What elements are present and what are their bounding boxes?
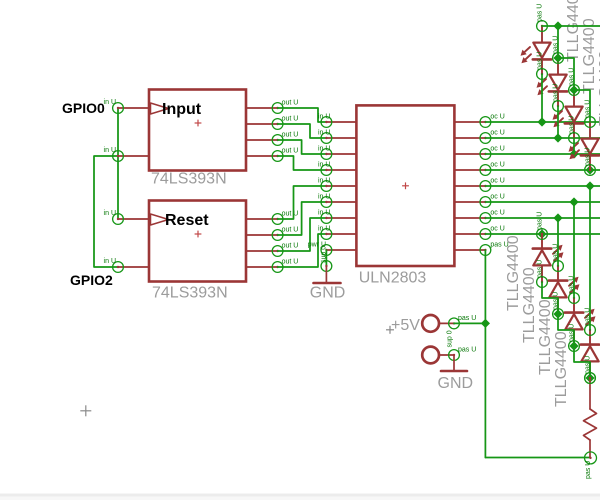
- wire +5V to COM rail: [454, 322, 485, 324]
- svg-text:out U: out U: [282, 226, 299, 233]
- label LED8 name TLLG4400: [553, 331, 570, 407]
- label LED5 name TLLG4400: [505, 235, 522, 311]
- svg-text:ULN2803: ULN2803: [359, 270, 427, 287]
- svg-text:TLLG4400: TLLG4400: [581, 18, 598, 94]
- wire U2 out4 to U3 in8: [278, 234, 327, 267]
- connector pin +5V: [422, 315, 476, 332]
- wire bottom +5V rail: [485, 457, 590, 459]
- svg-text:oc U: oc U: [490, 225, 504, 232]
- junction oc5 at x=590: [585, 181, 594, 190]
- svg-text:Input: Input: [162, 101, 202, 118]
- svg-text:in U: in U: [104, 210, 116, 217]
- wire U2 out2 to U3 in6: [278, 202, 327, 235]
- IC U3 ULN2803 darlington driver: [308, 105, 509, 266]
- LED5 TLLG4400: [533, 212, 564, 288]
- svg-text:oc U: oc U: [490, 113, 504, 120]
- ground GND1 under U3: [310, 261, 346, 302]
- wire U3 oc3 output row: [485, 153, 600, 155]
- svg-text:pas U: pas U: [537, 212, 544, 230]
- svg-text:oc U: oc U: [490, 129, 504, 136]
- svg-text:GND: GND: [310, 285, 346, 302]
- junction anode rail E: [569, 341, 578, 350]
- svg-text:GPIO2: GPIO2: [70, 272, 113, 288]
- wire LED6 cathode riser: [557, 218, 559, 266]
- wire net GPIO2: [94, 156, 118, 267]
- label net gnd rotated: [321, 246, 328, 263]
- wire U3 oc5 output row: [485, 185, 600, 187]
- wire LED8 cathode riser: [589, 186, 591, 330]
- junction oc4 at x=590: [585, 165, 594, 174]
- svg-text:pas U: pas U: [458, 346, 476, 353]
- net label GPIO0: [62, 100, 105, 116]
- label U3 value ULN2803: [359, 270, 427, 287]
- wire U3 oc8 output row: [485, 233, 600, 235]
- svg-text:out U: out U: [282, 115, 299, 122]
- wire LED1-LED4 anode rail: [542, 26, 590, 122]
- junction oc2 at x=558: [553, 133, 562, 142]
- LED4 TLLG4400: [569, 100, 600, 176]
- label LED1 name TLLG4400: [565, 0, 582, 62]
- junction +5V rail: [481, 319, 490, 328]
- wire U1 out1 to U3 in1: [278, 108, 327, 122]
- svg-text:oc U: oc U: [490, 145, 504, 152]
- svg-text:TLLG4400: TLLG4400: [521, 267, 538, 343]
- svg-text:out U: out U: [282, 258, 299, 265]
- label LED7 name TLLG4400: [537, 299, 554, 375]
- label LED6 name TLLG4400: [521, 267, 538, 343]
- svg-text:oc U: oc U: [490, 161, 504, 168]
- label net sup rotated: [447, 330, 454, 347]
- wire LED5-LED8 anode rail: [542, 282, 590, 378]
- svg-text:in U: in U: [104, 258, 116, 265]
- svg-text:sup 0: sup 0: [447, 330, 454, 347]
- svg-text:out U: out U: [282, 242, 299, 249]
- wire U2 out1 to U3 in5: [278, 186, 327, 219]
- junction oc1 at x=542: [537, 117, 546, 126]
- svg-text:pas U: pas U: [458, 315, 476, 322]
- wire LED2 cathode drop: [557, 106, 559, 138]
- svg-text:pas U: pas U: [569, 116, 576, 134]
- svg-text:TLLG4400: TLLG4400: [505, 235, 522, 311]
- svg-text:74LS393N: 74LS393N: [152, 285, 228, 302]
- wire U3 pas COM down to bottom rail: [484, 250, 486, 458]
- svg-text:out U: out U: [282, 131, 299, 138]
- svg-text:74LS393N: 74LS393N: [151, 170, 227, 187]
- IC U1 74LS393N counter Input: [104, 90, 299, 171]
- junction anode rail D: [553, 309, 562, 318]
- svg-text:pas U: pas U: [537, 4, 544, 22]
- wire U3 oc6 output row: [485, 201, 600, 203]
- bottom band: [0, 494, 600, 500]
- svg-text:TLLG4400: TLLG4400: [537, 299, 554, 375]
- ground GND2: [438, 355, 474, 392]
- wire U3 oc4 output row: [485, 169, 600, 171]
- LED6 TLLG4400: [549, 244, 580, 320]
- LED1 TLLG4400: [521, 4, 552, 80]
- wire U1 out2 to U3 in2: [278, 124, 327, 138]
- svg-text:in U: in U: [318, 161, 330, 168]
- label U2 value 74LS393N: [152, 285, 228, 302]
- svg-text:in U: in U: [318, 177, 330, 184]
- wire U3 pwr to GND: [325, 250, 327, 266]
- wire U3 oc7 output row: [485, 217, 600, 219]
- junction oc7 at x=558: [553, 213, 562, 222]
- junction anode rail B: [553, 53, 562, 62]
- svg-text:in U: in U: [318, 209, 330, 216]
- svg-text:pas U: pas U: [585, 461, 592, 479]
- junction anode rail A: [553, 21, 562, 30]
- svg-text:out U: out U: [282, 210, 299, 217]
- IC U2 74LS393N counter Reset: [104, 201, 299, 282]
- svg-text:oc U: oc U: [490, 209, 504, 216]
- svg-text:+5V: +5V: [391, 317, 420, 334]
- svg-text:oc U: oc U: [490, 193, 504, 200]
- LED7 TLLG4400: [565, 276, 596, 352]
- LED2 TLLG4400: [537, 36, 568, 112]
- wire U3 oc2 output row: [485, 137, 600, 139]
- svg-text:TLLG4400: TLLG4400: [565, 0, 582, 62]
- wire anode rail to right edge: [558, 25, 600, 27]
- wire U3 oc1 output row: [485, 121, 600, 123]
- wire U1 out3 to U3 in3: [278, 140, 327, 154]
- svg-text:GPIO0: GPIO0: [62, 100, 105, 116]
- svg-text:in U: in U: [318, 145, 330, 152]
- label LED3 name TLLG4400: [597, 50, 600, 126]
- svg-text:pas U: pas U: [553, 84, 560, 102]
- label U1 value 74LS393N: [151, 170, 227, 187]
- LED3 TLLG4400: [553, 68, 584, 144]
- svg-text:out U: out U: [282, 147, 299, 154]
- LED8 TLLG4400: [581, 308, 600, 384]
- svg-text:pas U: pas U: [537, 52, 544, 70]
- svg-text:pas U: pas U: [585, 148, 592, 166]
- svg-text:in U: in U: [318, 225, 330, 232]
- wire LED1 cathode drop: [541, 74, 543, 122]
- wire LED3 cathode drop: [573, 138, 575, 154]
- wire LED7 cathode riser: [573, 202, 575, 298]
- junction oc3 at x=574: [569, 149, 578, 158]
- label +5V: [386, 317, 420, 334]
- wire U1 out4 to U3 in4: [278, 156, 327, 170]
- svg-text:in U: in U: [104, 99, 116, 106]
- wire U2 out3 to U3 in7: [278, 218, 327, 251]
- junction anode rail F: [585, 373, 594, 382]
- svg-text:Reset: Reset: [165, 212, 209, 229]
- svg-text:in U: in U: [318, 113, 330, 120]
- origin cross: [80, 405, 91, 416]
- svg-text:oc U: oc U: [490, 177, 504, 184]
- svg-text:in U: in U: [104, 147, 116, 154]
- junction oc6 at x=574: [569, 197, 578, 206]
- svg-text:GND: GND: [438, 375, 474, 392]
- wire net GPIO0 vertical: [117, 108, 119, 219]
- connector pin GND: [422, 346, 476, 363]
- svg-text:in U: in U: [318, 129, 330, 136]
- junction oc8 at x=542: [537, 229, 546, 238]
- label LED2 name TLLG4400: [581, 18, 598, 94]
- svg-text:in U: in U: [318, 193, 330, 200]
- resistor R1: [584, 373, 597, 479]
- svg-text:out U: out U: [282, 99, 299, 106]
- junction anode rail C: [569, 85, 578, 94]
- svg-text:TLLG4400: TLLG4400: [553, 331, 570, 407]
- net label GPIO2: [70, 272, 113, 288]
